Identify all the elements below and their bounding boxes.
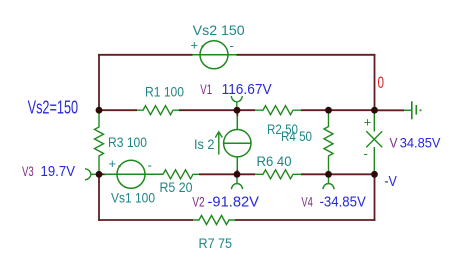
resistor R2 xyxy=(255,106,301,115)
svg-text:Vs1 100: Vs1 100 xyxy=(111,190,155,206)
resistor R6 xyxy=(255,170,301,179)
wire main rail segment C xyxy=(301,109,375,111)
svg-text:-91.82V: -91.82V xyxy=(208,194,260,211)
label Vs2 value xyxy=(193,22,245,38)
svg-text:V2: V2 xyxy=(192,194,205,210)
svg-text:+: + xyxy=(364,115,372,130)
resistor R3 xyxy=(95,111,104,174)
label V marker xyxy=(390,134,399,150)
junction node V3 xyxy=(96,171,103,178)
svg-text:R3 100: R3 100 xyxy=(108,134,147,150)
voltage marker V differential xyxy=(366,111,382,174)
svg-text:-: - xyxy=(364,146,368,161)
svg-text:V1: V1 xyxy=(200,81,212,97)
wire main rail segment A xyxy=(99,109,137,111)
label V1 xyxy=(200,81,212,97)
wire top rail right segment xyxy=(237,54,376,56)
junction node R4 top xyxy=(325,107,332,114)
junction node V4 xyxy=(325,171,332,178)
value 34.85V xyxy=(400,134,441,150)
value -34.85V xyxy=(320,194,366,211)
svg-text:-V: -V xyxy=(384,173,397,190)
label R4 value xyxy=(281,128,312,144)
arrow Is direction xyxy=(215,132,222,155)
label Vs1 value xyxy=(111,190,155,206)
junction node V1 xyxy=(234,107,241,114)
svg-text:34.85V: 34.85V xyxy=(400,134,441,150)
svg-text:Vs2 150: Vs2 150 xyxy=(193,22,245,38)
viewpoint marker V1 xyxy=(231,96,242,108)
label R3 value xyxy=(108,134,147,150)
svg-text:0: 0 xyxy=(378,74,385,92)
svg-text:-: - xyxy=(148,158,152,173)
label R1 value xyxy=(145,84,184,100)
wire main rail segment B xyxy=(179,109,255,111)
svg-text:R4 50: R4 50 xyxy=(281,128,312,144)
svg-text:116.67V: 116.67V xyxy=(222,81,272,98)
label V4 xyxy=(301,194,313,210)
wire left vertical bottom xyxy=(98,174,100,221)
svg-text:+: + xyxy=(109,156,117,171)
svg-text:V: V xyxy=(390,134,399,150)
svg-text:-34.85V: -34.85V xyxy=(320,194,366,211)
svg-text:R7 75: R7 75 xyxy=(199,235,233,251)
viewpoint marker V4 xyxy=(323,177,334,189)
current source Is xyxy=(224,110,251,174)
svg-text:+: + xyxy=(191,38,199,53)
junction node main rail left xyxy=(96,107,103,114)
voltage source Vs1 xyxy=(104,160,163,188)
wire right vertical top xyxy=(374,54,376,110)
svg-text:19.7V: 19.7V xyxy=(41,163,76,180)
wire right vertical bottom xyxy=(374,174,376,221)
svg-text:R5 20: R5 20 xyxy=(160,179,193,195)
node label -V xyxy=(384,173,397,190)
minus sign Vs1 xyxy=(148,158,152,173)
label R5 value xyxy=(160,179,193,195)
text Vs2=150 xyxy=(28,98,79,118)
junction node -V xyxy=(371,171,378,178)
wire top rail left segment xyxy=(98,54,192,56)
resistor R7 xyxy=(193,216,235,225)
value 19.7V xyxy=(41,163,76,180)
svg-text:Is 2: Is 2 xyxy=(194,136,215,152)
resistor R1 xyxy=(137,106,179,115)
viewpoint marker V3 xyxy=(85,169,97,180)
wire ground branch xyxy=(375,109,405,111)
wire mid rail segment A xyxy=(99,173,106,175)
label Is value xyxy=(194,136,215,152)
label V3 xyxy=(22,163,34,179)
minus sign marker xyxy=(364,146,368,161)
svg-text:-: - xyxy=(230,38,234,53)
voltage source Vs2 xyxy=(193,41,237,69)
resistor R5 xyxy=(155,170,199,179)
wire mid rail segment C xyxy=(301,173,375,175)
svg-text:V3: V3 xyxy=(22,163,34,179)
value -91.82V xyxy=(208,194,260,211)
svg-text:V4: V4 xyxy=(301,194,313,210)
label R6 value xyxy=(257,153,292,169)
resistor R4 xyxy=(324,111,333,174)
plus sign marker xyxy=(364,115,372,130)
label R7 value xyxy=(199,235,233,251)
svg-text:Vs2=150: Vs2=150 xyxy=(28,98,79,118)
junction node V2 xyxy=(234,171,241,178)
wire left vertical top xyxy=(98,54,100,110)
junction node 0 xyxy=(371,107,378,114)
plus sign Vs1 xyxy=(109,156,117,171)
node label 0 xyxy=(378,74,385,92)
value 116.67V xyxy=(222,81,272,98)
plus sign Vs2 xyxy=(191,38,199,53)
label V2 xyxy=(192,194,205,210)
label R2 value xyxy=(267,121,298,137)
ground symbol AGND xyxy=(404,101,422,119)
wire bottom rail right xyxy=(235,219,375,221)
wire bottom rail left xyxy=(98,219,193,221)
minus sign Vs2 xyxy=(230,38,234,53)
viewpoint marker V2 xyxy=(231,177,242,189)
svg-text:R1 100: R1 100 xyxy=(145,84,184,100)
wire mid rail segment B xyxy=(199,173,255,175)
svg-text:R6 40: R6 40 xyxy=(257,153,292,169)
